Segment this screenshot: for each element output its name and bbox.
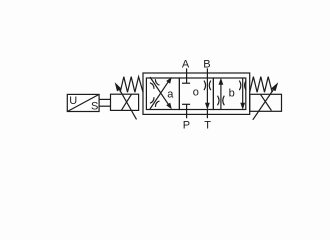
svg-text:S: S xyxy=(91,101,98,113)
wire (lower, amplifier to left solenoid) xyxy=(99,105,110,107)
box b arrow P->A (up) xyxy=(219,78,224,110)
amplifier U1 (U/S converter box) xyxy=(67,94,99,111)
box b arrow B->T (down) xyxy=(240,78,245,110)
box o blocked port A stub xyxy=(182,78,190,83)
solenoid L1 (left proportional solenoid box) xyxy=(111,94,139,110)
valve box a (left position square) xyxy=(146,78,179,110)
svg-text:o: o xyxy=(193,86,199,98)
svg-text:a: a xyxy=(167,88,174,100)
valve box b (right position square) xyxy=(213,78,245,110)
wire (upper, amplifier to left solenoid) xyxy=(99,98,110,100)
svg-text:T: T xyxy=(204,120,211,132)
solenoid R1 adjustment arrow xyxy=(253,82,278,120)
port T stub xyxy=(206,110,208,119)
port B stub xyxy=(206,68,208,78)
svg-text:A: A xyxy=(182,59,190,71)
box a throttle mark (lower) xyxy=(150,97,159,107)
box o blocked port P stub xyxy=(182,104,190,109)
svg-text:P: P xyxy=(183,120,190,132)
solenoid R1 (right proportional solenoid box) xyxy=(250,94,282,111)
spring (left) xyxy=(120,77,143,93)
box b throttle on P->A xyxy=(218,96,225,106)
port A stub xyxy=(186,68,188,78)
box o throttle on B->T xyxy=(204,81,211,91)
box a arrow A->T (down-right) xyxy=(150,77,172,109)
valve outer proportional frame xyxy=(143,73,250,114)
box a throttle mark (upper) xyxy=(150,79,159,89)
solenoid R1 slash xyxy=(261,94,272,110)
spring (right) xyxy=(250,77,273,93)
solenoid L1 slash xyxy=(121,94,131,110)
solenoid L1 adjustment arrow xyxy=(115,82,137,119)
box a arrow P->B (up-right) xyxy=(150,77,172,109)
svg-text:b: b xyxy=(229,87,235,99)
port P stub xyxy=(186,110,188,119)
svg-text:U: U xyxy=(69,95,77,107)
box b throttle on B->T xyxy=(239,81,246,91)
box o B->T arrow xyxy=(205,78,210,110)
valve box o (centre position square) xyxy=(179,78,213,110)
svg-text:B: B xyxy=(203,59,210,71)
